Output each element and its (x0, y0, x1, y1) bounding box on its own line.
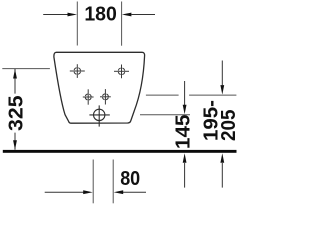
dim 195-205 extension line left segment (146, 94, 179, 96)
dim 195-205 arrow up from below floor (220, 153, 224, 187)
dim 325 arrow down (13, 140, 17, 150)
svg-text:205: 205 (218, 110, 240, 142)
fixing hole mid-right (100, 89, 111, 104)
fixing hole top-right (114, 65, 129, 79)
dim 80 extension line right (112, 160, 114, 204)
svg-text:325: 325 (6, 95, 28, 131)
dim 145 arrow down (183, 81, 187, 114)
dim 180 arrow left (43, 13, 77, 17)
dim 180 arrow right (122, 13, 155, 17)
svg-text:145: 145 (172, 114, 194, 149)
floor line (3, 150, 237, 153)
dim 80 arrow right (114, 190, 146, 194)
fixing hole mid-left (83, 89, 94, 104)
svg-text:80: 80 (120, 168, 140, 190)
dim 80 extension line left (92, 160, 94, 204)
dim 145 arrow up from below floor (183, 153, 187, 187)
dim 195-205 extension line right segment (189, 94, 236, 96)
dim 80 arrow left (45, 190, 93, 194)
drain hole (89, 105, 109, 126)
dim 325 extension line top (2, 68, 50, 70)
dim 180 extension line left (76, 2, 78, 46)
dim 325 arrow up (13, 69, 17, 79)
svg-text:180: 180 (84, 4, 117, 26)
fixing hole top-left (70, 64, 85, 78)
bidet outline (54, 52, 145, 123)
dim 325 line lower (14, 133, 16, 150)
dim 145 feature line (140, 114, 190, 116)
dim 325 line upper (14, 69, 16, 94)
dim 195-205 arrow down (220, 61, 224, 95)
dim 180 extension line right (121, 2, 123, 46)
